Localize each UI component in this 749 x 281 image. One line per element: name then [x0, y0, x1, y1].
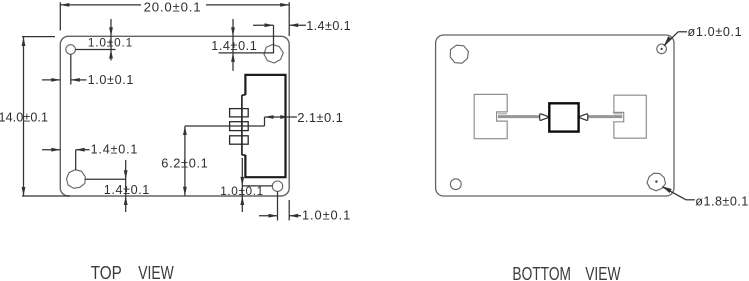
svg-text:1.0±0.1: 1.0±0.1 [88, 36, 132, 50]
svg-text:14.0±0.1: 14.0±0.1 [0, 111, 48, 125]
svg-text:20.0±0.1: 20.0±0.1 [144, 0, 201, 15]
svg-text:ø1.8±0.1: ø1.8±0.1 [695, 194, 748, 208]
svg-text:1.4±0.1: 1.4±0.1 [104, 183, 150, 197]
svg-text:1.4±0.1: 1.4±0.1 [91, 143, 138, 157]
svg-text:1.0±0.1: 1.0±0.1 [88, 73, 134, 87]
svg-text:1.4±0.1: 1.4±0.1 [211, 39, 257, 53]
svg-text:ø1.0±0.1: ø1.0±0.1 [688, 25, 742, 39]
svg-text:1.4±0.1: 1.4±0.1 [306, 19, 351, 33]
svg-text:1.0±0.1: 1.0±0.1 [220, 184, 263, 198]
svg-text:2.1±0.1: 2.1±0.1 [297, 110, 343, 125]
svg-text:BOTTOM: BOTTOM [512, 264, 571, 281]
svg-text:VIEW: VIEW [585, 264, 620, 281]
svg-text:6.2±0.1: 6.2±0.1 [161, 156, 208, 171]
svg-text:1.0±0.1: 1.0±0.1 [302, 208, 350, 223]
svg-text:TOP: TOP [91, 263, 122, 281]
svg-text:VIEW: VIEW [138, 263, 174, 281]
